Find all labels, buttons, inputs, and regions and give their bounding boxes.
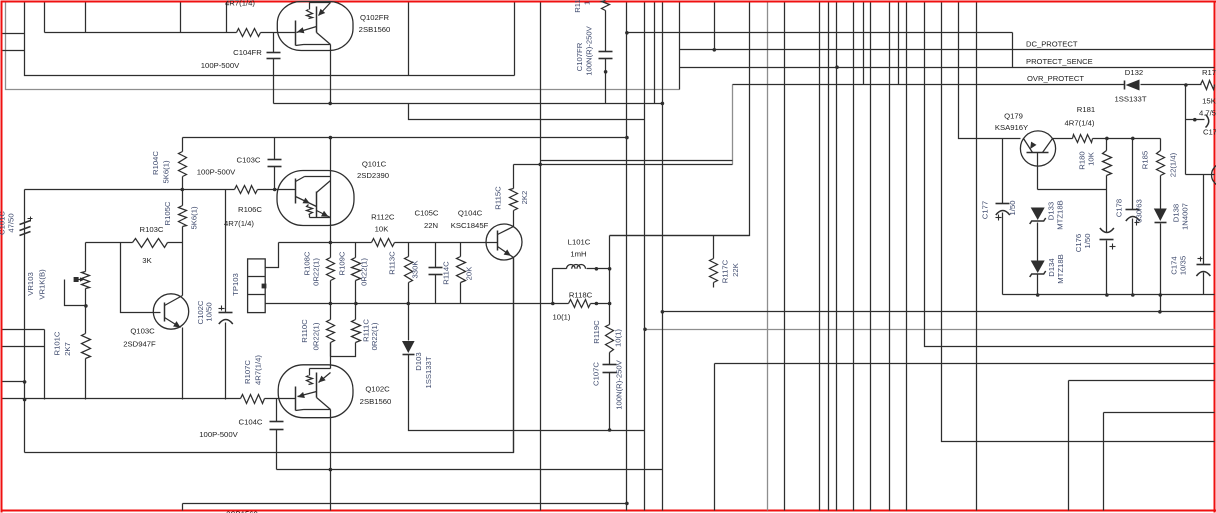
wire TP103 pin1 to emitter net <box>266 243 279 268</box>
wire bus x942 <box>942 3 1215 442</box>
svg-text:1/50: 1/50 <box>1083 234 1092 249</box>
wire vertical x24 main segment <box>24 190 26 453</box>
wire bus x837 full height <box>836 3 838 511</box>
wire x1186 down from OVR <box>1185 85 1187 175</box>
wire Q103C emitter <box>182 328 184 400</box>
wire column x609 <box>609 236 611 325</box>
resistor 4R7(1/4) feeding Q102FR <box>237 29 261 37</box>
node junction y303 x408 <box>407 302 411 306</box>
node junction C107C on y430 <box>608 428 612 432</box>
capacitor C174 10/35 <box>1203 175 1205 265</box>
svg-text:R113C: R113C <box>388 251 397 275</box>
transistor Q103C 2SD947F <box>153 294 188 329</box>
node junction x609 y303 <box>608 302 612 306</box>
capacitor C177 1/50 <box>1002 139 1004 204</box>
wire vertical x24 top segment <box>25 3 515 76</box>
svg-text:5K6(1): 5K6(1) <box>190 206 199 230</box>
wire gray rail from top-left corner <box>6 3 680 90</box>
wire Q103C collector <box>182 243 184 296</box>
node junction x1107 y138 <box>1105 137 1109 141</box>
svg-text:C105C: C105C <box>415 209 439 218</box>
capacitor C104C <box>276 399 278 422</box>
wire y137 net <box>183 137 627 139</box>
node junction x24 y382 <box>23 380 27 384</box>
wire TP103 pin3 main net y303 <box>266 303 569 305</box>
capacitor C107FR <box>605 11 607 52</box>
svg-text:R11: R11 <box>573 0 582 13</box>
svg-text:5K6(1): 5K6(1) <box>162 160 171 184</box>
svg-text:R117C: R117C <box>720 259 729 283</box>
svg-text:R108C: R108C <box>303 251 312 275</box>
svg-text:1N4007: 1N4007 <box>1181 203 1190 230</box>
wire bottom block stub x330 <box>330 504 332 511</box>
svg-text:3K: 3K <box>142 256 152 265</box>
node junction R104C/R105C <box>181 188 185 192</box>
svg-text:R180: R180 <box>1078 151 1087 169</box>
node junction start y311 <box>661 310 665 314</box>
wire bus x977 full height <box>976 3 978 511</box>
node junction end y503 <box>625 502 629 506</box>
svg-text:Q179: Q179 <box>1004 112 1023 121</box>
svg-text:R103C: R103C <box>140 225 164 234</box>
wire stub left edge y34 <box>3 33 25 35</box>
transistor partial right edge <box>1212 164 1216 187</box>
node junction VR103 bottom <box>84 304 88 308</box>
svg-text:R17: R17 <box>1202 68 1216 77</box>
wire vertical x44 lower <box>44 330 46 400</box>
svg-text:D134: D134 <box>1047 258 1056 277</box>
wire y120 net <box>409 104 645 120</box>
node junction x540 on y164 <box>538 163 542 167</box>
svg-text:2SB1560: 2SB1560 <box>226 510 258 513</box>
wire OVR_PROTECT net y85 left part <box>733 84 1125 86</box>
svg-text:PROTECT_SENCE: PROTECT_SENCE <box>1026 57 1093 66</box>
svg-text:2K7: 2K7 <box>63 342 72 356</box>
wire bus x863 top <box>863 3 865 85</box>
wire Q179 collector to R181 <box>1053 138 1073 140</box>
svg-text:C176: C176 <box>1074 234 1083 252</box>
resistor R104C 5K6 <box>182 138 184 152</box>
node junction end y103 <box>661 102 665 106</box>
svg-text:1SS133T: 1SS133T <box>1114 95 1146 104</box>
svg-text:D103: D103 <box>414 352 423 370</box>
node junction rail ticks <box>1036 293 1040 297</box>
wire net y469 <box>277 469 663 471</box>
svg-text:2K2: 2K2 <box>520 191 529 205</box>
resistor R119C 10(1) <box>606 325 614 353</box>
wire y164 net R115C top <box>514 164 733 166</box>
svg-text:R105C: R105C <box>163 201 172 225</box>
node junction on stub <box>1193 118 1197 122</box>
svg-text:4R7(1/4): 4R7(1/4) <box>225 0 255 8</box>
resistor R113C 330K <box>408 243 410 257</box>
svg-text:330/63: 330/63 <box>1135 199 1144 223</box>
node junction x24 y399 <box>23 398 27 402</box>
wire vertical x1103 bottom <box>1103 413 1105 511</box>
resistor R114C 20K <box>460 243 462 257</box>
svg-text:2SD2390: 2SD2390 <box>357 171 389 180</box>
capacitor C102C 10/50 <box>225 190 227 313</box>
wire vertical x1068 bottom <box>1068 381 1070 511</box>
wire bus x662 full height <box>662 3 664 511</box>
wire PROTECT_SENCE net y66 <box>680 67 1215 69</box>
node junction x837 on y66 <box>835 65 839 69</box>
svg-text:R104C: R104C <box>151 151 160 175</box>
wire L101C bracket left <box>552 269 554 304</box>
page border red top <box>1 1 1216 3</box>
wire VR103 wiper loop <box>65 280 86 306</box>
svg-text:2SD947F: 2SD947F <box>123 340 156 349</box>
node junction end y137 <box>625 136 629 140</box>
wire Q103C base branch <box>121 243 161 313</box>
svg-text:R109C: R109C <box>338 251 347 275</box>
svg-text:10K: 10K <box>375 225 390 234</box>
resistor R108C 0R22 <box>330 243 332 258</box>
svg-text:0R22(1): 0R22(1) <box>370 322 379 350</box>
svg-text:2SB1560: 2SB1560 <box>360 397 392 406</box>
resistor R181 4R7(1/4) <box>1073 135 1093 143</box>
node junction x1160 on y311 <box>1158 310 1162 314</box>
wire stub to C17x cap <box>1186 119 1205 121</box>
node junction start gray y329 <box>643 328 647 332</box>
node junction x714 on y49 <box>713 48 717 52</box>
wire net y243 left <box>86 242 133 244</box>
wire y235 net <box>610 235 750 237</box>
svg-text:Q102C: Q102C <box>365 385 390 394</box>
svg-text:R106C: R106C <box>238 205 262 214</box>
wire bus x627 full height <box>626 3 628 511</box>
svg-text:TP103: TP103 <box>231 273 240 296</box>
node junction x609 y268 <box>608 267 612 271</box>
potentiometer VR103 VR1K(B) <box>85 243 87 272</box>
node junction y303 x355 <box>354 302 358 306</box>
node junction x1186 on OVR net <box>1184 83 1188 87</box>
svg-text:4R7(1/4): 4R7(1/4) <box>1065 119 1095 128</box>
svg-text:D133: D133 <box>1047 202 1056 220</box>
transistor Q102C 2SB1560 darlington <box>278 365 353 418</box>
wire bus x898 top <box>898 3 900 85</box>
resistor R115C 2K2 <box>513 165 515 189</box>
svg-text:330K: 330K <box>411 260 420 279</box>
resistor R111C 0R22 <box>352 320 361 343</box>
diode D138 1N4007 <box>1154 209 1167 222</box>
diode D132 1SS133T <box>1124 81 1126 90</box>
wire bus x540 full height <box>540 3 542 511</box>
wire DC_PROTECT net y49 <box>680 49 1215 51</box>
resistor R117C 22K <box>713 236 715 259</box>
node junction x1133 y138 <box>1131 137 1135 141</box>
capacitor C101C 47/50 <box>20 221 31 225</box>
wire bus x819 full height <box>819 3 821 511</box>
resistor R109C 0R22 <box>355 243 357 258</box>
node junction R118C right <box>595 302 599 306</box>
wire net y242 emitter to Q104C base <box>279 242 372 244</box>
wire Q101C collector-emitter column <box>330 138 332 177</box>
svg-text:C107C: C107C <box>592 362 601 386</box>
wire vertical x86 top <box>85 3 87 33</box>
svg-text:OVR_PROTECT: OVR_PROTECT <box>1027 74 1084 83</box>
wire bus x645 full height <box>644 3 646 511</box>
wire net y363 <box>715 363 1215 365</box>
svg-text:0R22(1): 0R22(1) <box>312 322 321 350</box>
svg-text:1: 1 <box>583 1 592 5</box>
svg-text:R185: R185 <box>1141 151 1150 169</box>
resistor R180 10K <box>1106 139 1108 151</box>
capacitor C104FR <box>273 33 275 53</box>
svg-text:100P-500V: 100P-500V <box>199 430 238 439</box>
transistor Q179 KSA916Y <box>1020 131 1055 166</box>
svg-text:D132: D132 <box>1125 68 1143 77</box>
wire stub left y382 <box>3 381 25 383</box>
page border red right <box>1214 1 1216 513</box>
svg-text:10(1): 10(1) <box>614 329 623 347</box>
wire net y430 D103 to bus <box>409 355 645 431</box>
svg-text:DC_PROTECT: DC_PROTECT <box>1026 40 1078 49</box>
wire bus x749 <box>610 3 750 236</box>
wire bus x959 <box>959 3 1021 139</box>
svg-text:C104FR: C104FR <box>233 48 262 57</box>
svg-text:C177: C177 <box>981 201 990 219</box>
node junction Q102FR emitter on y103 <box>328 102 332 106</box>
wire y32 upper net <box>627 32 1013 34</box>
resistor R103C 3K <box>133 239 168 248</box>
wire Q104C emitter down <box>513 258 515 453</box>
resistor R107C 4R7 <box>241 395 265 404</box>
wire Q102C collector from R110C <box>330 343 332 369</box>
svg-text:20K: 20K <box>465 266 474 281</box>
wire gray vertical bus x767 <box>767 3 769 511</box>
transistor Q101C 2SD2390 darlington <box>277 171 354 226</box>
svg-text:Q103C: Q103C <box>130 327 155 336</box>
svg-text:4R7(1/4): 4R7(1/4) <box>254 355 263 385</box>
svg-text:100N(R)-250V: 100N(R)-250V <box>585 25 594 75</box>
svg-text:R119C: R119C <box>592 320 601 344</box>
node junction below C107FR <box>604 70 608 74</box>
transistor Q102FR 2SB1560 darlington <box>277 2 353 51</box>
svg-text:1SS133T: 1SS133T <box>424 356 433 388</box>
node junction bracket bottom <box>551 302 555 306</box>
node junction Q101C collector on y137 <box>329 136 333 140</box>
resistor R118C 10(1) <box>569 300 591 308</box>
node junction Q102C emitter on y469 <box>329 468 333 472</box>
wire net y503 bottom block top edge <box>183 503 627 505</box>
svg-text:R101C: R101C <box>53 331 62 355</box>
svg-text:R114C: R114C <box>442 261 451 285</box>
svg-text:2SB1560: 2SB1560 <box>359 25 391 34</box>
wire vertical x408 top <box>408 3 410 76</box>
capacitor C178 330/63 <box>1132 139 1134 210</box>
svg-text:10/50: 10/50 <box>205 302 214 321</box>
transistor Q104C KSC1845F <box>486 224 522 260</box>
wire bus x654 top <box>654 3 656 104</box>
svg-text:MTZ18B: MTZ18B <box>1056 200 1065 229</box>
wire base to R180 bottom y189 <box>1038 189 1107 191</box>
resistor R101C 2K7 <box>82 334 91 359</box>
capacitor C17x clipped <box>1206 115 1209 128</box>
wire bus x714 bottom segment <box>714 364 716 511</box>
wire y160 net <box>541 160 733 162</box>
inductor L101C 1mH <box>553 268 567 270</box>
capacitor C103C <box>274 138 276 160</box>
svg-text:C107FR: C107FR <box>575 42 584 71</box>
svg-text:KSA916Y: KSA916Y <box>995 123 1028 132</box>
capacitor C105C 22N <box>435 243 437 268</box>
wire stub left edge y50 <box>3 50 25 52</box>
svg-text:1/50: 1/50 <box>1008 201 1017 216</box>
svg-text:100N(R)-250V: 100N(R)-250V <box>615 359 624 409</box>
wire vertical x1012 protect link <box>1012 33 1014 68</box>
resistor R112C 10K <box>372 239 395 247</box>
test point TP103 <box>248 259 266 313</box>
svg-text:C174: C174 <box>1170 256 1179 275</box>
wire y103 net <box>274 103 663 105</box>
wire stub left y330 <box>3 329 45 331</box>
resistor R17x 15K clipped at border <box>1201 81 1215 90</box>
resistor R110C 0R22 <box>327 320 335 343</box>
svg-text:MTZ18B: MTZ18B <box>1056 254 1065 283</box>
svg-text:0R22(1): 0R22(1) <box>360 258 369 286</box>
diode D133 MTZ18B zener <box>1031 208 1045 221</box>
svg-text:VR1K(B): VR1K(B) <box>38 269 47 300</box>
wire Q102FR emitter down <box>330 45 332 104</box>
svg-text:Q101C: Q101C <box>362 160 387 169</box>
wire net y138 right <box>1093 138 1161 140</box>
svg-text:0R22(1): 0R22(1) <box>312 258 321 286</box>
svg-text:R107C: R107C <box>243 360 252 384</box>
wire net y452 <box>25 259 514 453</box>
svg-text:10/35: 10/35 <box>1179 256 1188 275</box>
wire net y380 <box>1069 380 1215 382</box>
wire net y413 <box>1104 412 1215 414</box>
resistor R106C 4R7 <box>235 186 258 194</box>
svg-text:R181: R181 <box>1077 105 1095 114</box>
diode D134 MTZ18B zener <box>1031 261 1045 274</box>
svg-text:22K: 22K <box>731 262 740 277</box>
wire bus x785 full height <box>784 3 786 511</box>
wire bus x714 top <box>714 3 716 50</box>
node junction x330 y242 <box>329 241 333 245</box>
svg-text:D138: D138 <box>1172 204 1181 222</box>
svg-text:C104C: C104C <box>239 418 263 427</box>
svg-text:Q102FR: Q102FR <box>360 13 390 22</box>
svg-text:100P-500V: 100P-500V <box>201 61 240 70</box>
wire stub left y347 <box>3 346 45 348</box>
svg-text:R112C: R112C <box>371 213 395 222</box>
svg-text:10(1): 10(1) <box>553 313 571 322</box>
svg-text:L101C: L101C <box>568 238 591 247</box>
svg-text:1mH: 1mH <box>570 250 586 259</box>
svg-text:C178: C178 <box>1115 199 1124 217</box>
diode D103 1SS133T <box>402 341 415 353</box>
wire bottom block left edge <box>182 504 184 511</box>
svg-text:10K: 10K <box>1087 151 1096 166</box>
capacitor C176 1/50 <box>1100 239 1114 241</box>
svg-text:100P-500V: 100P-500V <box>197 168 236 177</box>
wire rail y295 <box>1003 294 1215 296</box>
svg-text:47/50: 47/50 <box>7 213 16 232</box>
svg-text:R115C: R115C <box>494 186 503 210</box>
svg-text:4R7(1/4): 4R7(1/4) <box>224 219 254 228</box>
wire bus x828 full height <box>828 3 830 511</box>
wire net y311 <box>663 311 1215 313</box>
resistor R105C 5K6 <box>179 206 187 227</box>
resistor R11x top clipped <box>602 1 610 11</box>
svg-text:22N: 22N <box>424 221 438 230</box>
node junction y303 x330 <box>329 302 333 306</box>
wire gray rail y329 <box>645 329 1215 331</box>
svg-text:KSC1845F: KSC1845F <box>451 221 489 230</box>
wire Q102C emitter down <box>330 410 332 504</box>
wire vertical x514 top <box>514 3 516 76</box>
svg-text:C17: C17 <box>1203 128 1216 137</box>
svg-text:R110C: R110C <box>300 319 309 343</box>
svg-text:C103C: C103C <box>237 156 261 165</box>
svg-text:R118C: R118C <box>569 291 593 300</box>
page border red left <box>1 1 3 513</box>
wire bus x906 full height <box>906 3 908 511</box>
wire bus x871 full height <box>870 3 872 511</box>
capacitor C107C 100N(R)-250V <box>603 364 617 366</box>
wire y174 to edge <box>1186 174 1215 176</box>
wire bus x924 <box>925 3 1215 347</box>
wire vertical x181 top <box>180 3 182 33</box>
page border red bottom <box>1 510 1216 512</box>
node junction L101C right <box>595 267 599 271</box>
wire bus x679 top <box>679 3 681 90</box>
wire vertical x44 top <box>44 3 46 33</box>
wire gray vertical bus x732 <box>732 85 734 165</box>
svg-text:22(1/4): 22(1/4) <box>1169 152 1178 177</box>
svg-text:Q104C: Q104C <box>458 209 483 218</box>
svg-text:R111C: R111C <box>361 319 370 342</box>
wire OVR_PROTECT net y85 right part <box>1141 84 1202 86</box>
wire bus x889 full height <box>889 3 891 511</box>
wire bus x853 full height <box>853 3 855 511</box>
wire Q179 base down <box>1037 153 1039 190</box>
wire base net y189 <box>25 189 235 191</box>
svg-text:VR103: VR103 <box>26 272 35 296</box>
wire vertical x226 top <box>226 3 228 33</box>
svg-text:15K: 15K <box>1202 97 1216 106</box>
resistor R185 22(1/4) <box>1160 139 1162 151</box>
wire base net y32 to Q102FR <box>45 32 237 34</box>
node junction y32 start <box>625 31 629 35</box>
wire base net y399 to Q102C <box>3 398 241 400</box>
